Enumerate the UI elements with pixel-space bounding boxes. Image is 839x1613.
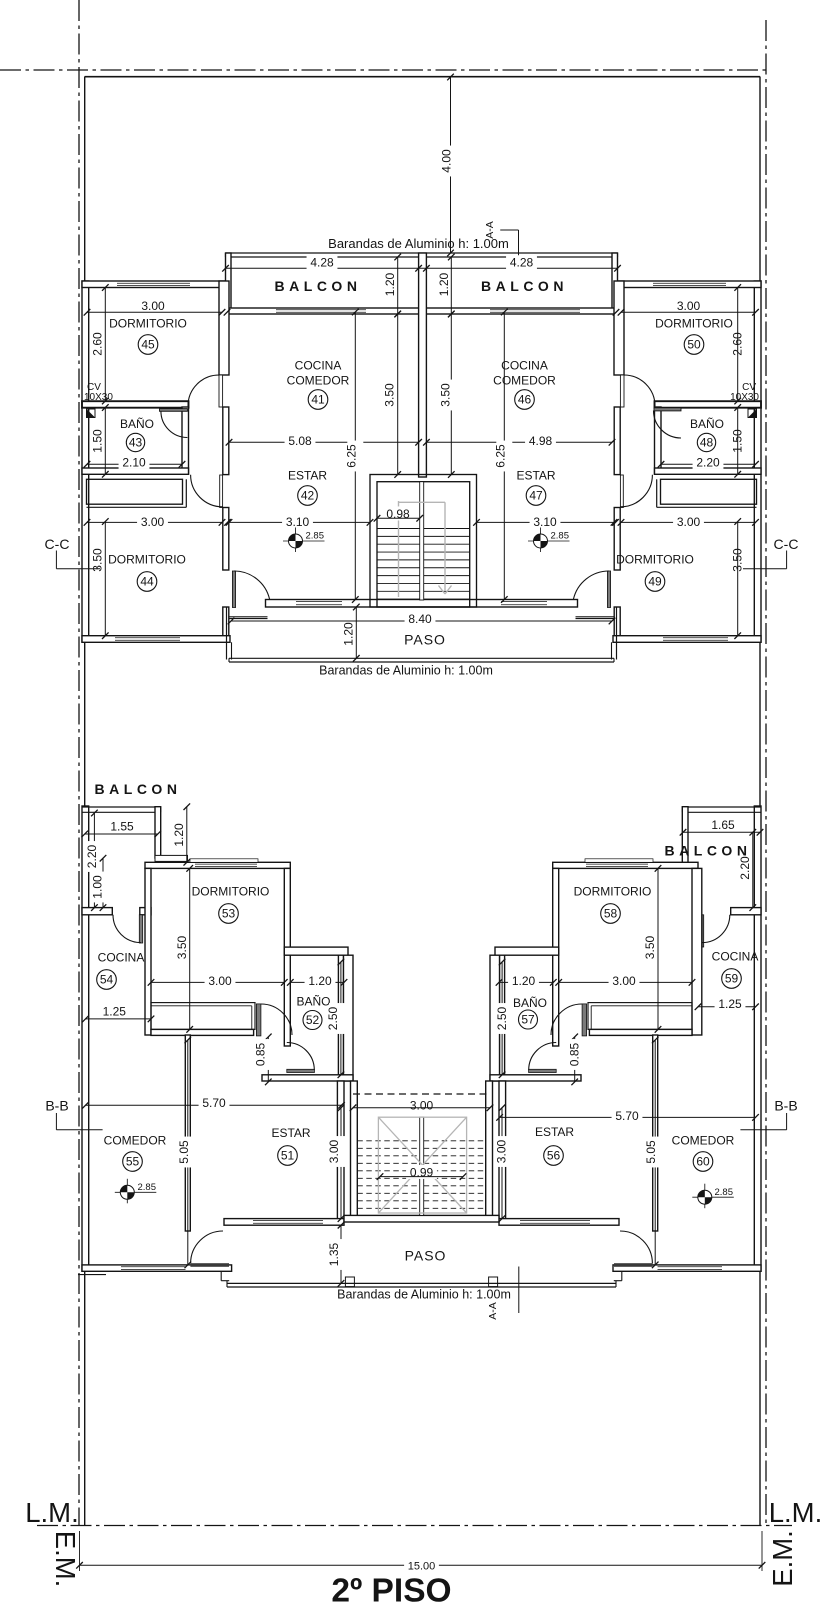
svg-text:BAÑO: BAÑO (513, 996, 547, 1010)
svg-text:0.99: 0.99 (410, 1165, 434, 1179)
svg-text:DORMITORIO: DORMITORIO (192, 885, 270, 899)
svg-text:49: 49 (648, 575, 662, 589)
svg-text:1.20: 1.20 (342, 622, 356, 646)
svg-text:PASO: PASO (404, 632, 446, 648)
svg-text:47: 47 (529, 489, 543, 503)
svg-text:BALCON: BALCON (275, 278, 362, 294)
svg-text:60: 60 (696, 1155, 710, 1169)
svg-text:3.10: 3.10 (286, 515, 310, 529)
svg-text:2.10: 2.10 (122, 455, 146, 469)
svg-text:52: 52 (306, 1013, 320, 1027)
svg-text:3.00: 3.00 (410, 1098, 434, 1112)
svg-text:3.00: 3.00 (677, 299, 701, 313)
svg-text:2.85: 2.85 (551, 531, 570, 542)
svg-text:Barandas de Aluminio h: 1.00m: Barandas de Aluminio h: 1.00m (319, 664, 493, 678)
svg-text:42: 42 (301, 489, 315, 503)
svg-text:54: 54 (100, 973, 114, 987)
svg-text:2º PISO: 2º PISO (331, 1573, 451, 1610)
svg-text:3.00: 3.00 (327, 1139, 341, 1163)
svg-text:1.20: 1.20 (308, 974, 332, 988)
svg-text:COCINA: COCINA (295, 359, 342, 373)
svg-text:4.00: 4.00 (440, 149, 454, 173)
svg-text:3.50: 3.50 (91, 548, 105, 572)
svg-text:2.60: 2.60 (731, 332, 745, 356)
svg-text:COMEDOR: COMEDOR (287, 374, 350, 388)
svg-text:L.M.: L.M. (769, 1497, 822, 1528)
svg-text:1.35: 1.35 (327, 1242, 341, 1266)
svg-text:55: 55 (126, 1155, 140, 1169)
svg-text:1.25: 1.25 (718, 997, 742, 1011)
svg-text:1.20: 1.20 (172, 823, 186, 847)
svg-text:1.20: 1.20 (383, 272, 397, 296)
svg-text:4.28: 4.28 (310, 256, 334, 270)
svg-text:6.25: 6.25 (493, 444, 507, 468)
svg-text:3.50: 3.50 (643, 935, 657, 959)
svg-text:46: 46 (518, 393, 532, 407)
svg-text:3.50: 3.50 (382, 383, 396, 407)
svg-text:COMEDOR: COMEDOR (493, 374, 556, 388)
svg-text:2.50: 2.50 (495, 1006, 509, 1030)
svg-text:1.20: 1.20 (512, 974, 536, 988)
svg-text:COCINA: COCINA (712, 950, 759, 964)
svg-text:COMEDOR: COMEDOR (104, 1134, 167, 1148)
svg-text:C-C: C-C (45, 536, 70, 552)
svg-text:1.20: 1.20 (437, 272, 451, 296)
svg-text:3.00: 3.00 (494, 1139, 508, 1163)
svg-text:DORMITORIO: DORMITORIO (655, 317, 733, 331)
svg-text:2.20: 2.20 (696, 455, 720, 469)
svg-text:ESTAR: ESTAR (271, 1126, 310, 1140)
svg-text:3.00: 3.00 (612, 974, 636, 988)
svg-text:48: 48 (700, 436, 714, 450)
svg-text:1.65: 1.65 (711, 818, 735, 832)
svg-text:COMEDOR: COMEDOR (672, 1134, 735, 1148)
svg-text:10X30: 10X30 (84, 392, 113, 403)
svg-text:L.M.: L.M. (25, 1497, 78, 1528)
svg-text:A-A: A-A (487, 1302, 499, 1320)
svg-text:DORMITORIO: DORMITORIO (574, 885, 652, 899)
svg-text:5.05: 5.05 (644, 1140, 658, 1164)
svg-text:3.00: 3.00 (677, 515, 701, 529)
svg-text:BAÑO: BAÑO (120, 417, 154, 431)
svg-text:6.25: 6.25 (344, 444, 358, 468)
svg-text:3.00: 3.00 (208, 974, 232, 988)
svg-text:2.50: 2.50 (326, 1006, 340, 1030)
svg-text:43: 43 (129, 436, 143, 450)
svg-text:10X30: 10X30 (730, 392, 759, 403)
svg-text:2.60: 2.60 (91, 332, 105, 356)
svg-text:0.85: 0.85 (253, 1042, 267, 1066)
svg-text:45: 45 (141, 338, 155, 352)
svg-text:2.20: 2.20 (738, 856, 752, 880)
svg-text:1.50: 1.50 (731, 429, 745, 453)
svg-text:ESTAR: ESTAR (288, 469, 327, 483)
svg-text:44: 44 (140, 575, 154, 589)
svg-text:4.28: 4.28 (510, 256, 534, 270)
svg-text:2.20: 2.20 (85, 844, 99, 868)
svg-text:BAÑO: BAÑO (296, 995, 330, 1009)
svg-text:0.85: 0.85 (568, 1042, 582, 1066)
svg-text:B-B: B-B (774, 1098, 797, 1114)
svg-text:56: 56 (547, 1149, 561, 1163)
svg-text:C-C: C-C (774, 536, 799, 552)
svg-text:2.85: 2.85 (715, 1187, 734, 1198)
svg-text:1.55: 1.55 (110, 820, 134, 834)
svg-text:15.00: 15.00 (408, 1560, 436, 1572)
svg-text:B-B: B-B (45, 1098, 68, 1114)
svg-text:53: 53 (222, 907, 236, 921)
svg-text:ESTAR: ESTAR (535, 1125, 574, 1139)
svg-text:1.00: 1.00 (91, 875, 105, 899)
svg-text:3.10: 3.10 (533, 515, 557, 529)
svg-text:5.70: 5.70 (615, 1109, 639, 1123)
svg-text:Barandas de Aluminio h: 1.00m: Barandas de Aluminio h: 1.00m (328, 236, 509, 251)
svg-text:3.00: 3.00 (141, 515, 165, 529)
svg-text:59: 59 (725, 972, 739, 986)
svg-text:2.85: 2.85 (306, 531, 325, 542)
svg-text:BAÑO: BAÑO (690, 417, 724, 431)
svg-text:COCINA: COCINA (98, 951, 145, 965)
svg-text:2.85: 2.85 (138, 1182, 157, 1193)
svg-text:58: 58 (604, 907, 618, 921)
svg-text:5.70: 5.70 (202, 1096, 226, 1110)
svg-text:1.50: 1.50 (91, 429, 105, 453)
svg-text:PASO: PASO (405, 1248, 447, 1264)
svg-text:5.08: 5.08 (288, 434, 312, 448)
svg-text:3.50: 3.50 (731, 548, 745, 572)
svg-text:41: 41 (311, 393, 325, 407)
svg-text:3.50: 3.50 (175, 935, 189, 959)
svg-text:4.98: 4.98 (529, 434, 553, 448)
svg-text:3.00: 3.00 (141, 299, 165, 313)
svg-text:57: 57 (521, 1013, 535, 1027)
svg-text:BALCON: BALCON (481, 278, 568, 294)
svg-text:8.40: 8.40 (408, 612, 432, 626)
svg-text:1.25: 1.25 (103, 1004, 127, 1018)
svg-text:DORMITORIO: DORMITORIO (108, 553, 186, 567)
svg-text:COCINA: COCINA (501, 359, 548, 373)
svg-text:E.M.: E.M. (50, 1531, 81, 1588)
svg-text:DORMITORIO: DORMITORIO (109, 317, 187, 331)
svg-text:5.05: 5.05 (177, 1140, 191, 1164)
svg-text:50: 50 (687, 338, 701, 352)
svg-text:DORMITORIO: DORMITORIO (616, 553, 694, 567)
svg-text:BALCON: BALCON (95, 781, 182, 797)
svg-text:3.50: 3.50 (439, 383, 453, 407)
svg-text:ESTAR: ESTAR (516, 469, 555, 483)
svg-text:51: 51 (281, 1149, 295, 1163)
svg-text:Barandas de Aluminio h: 1.00m: Barandas de Aluminio h: 1.00m (337, 1288, 511, 1302)
svg-text:BALCON: BALCON (665, 843, 752, 859)
svg-text:E.M.: E.M. (767, 1530, 798, 1587)
